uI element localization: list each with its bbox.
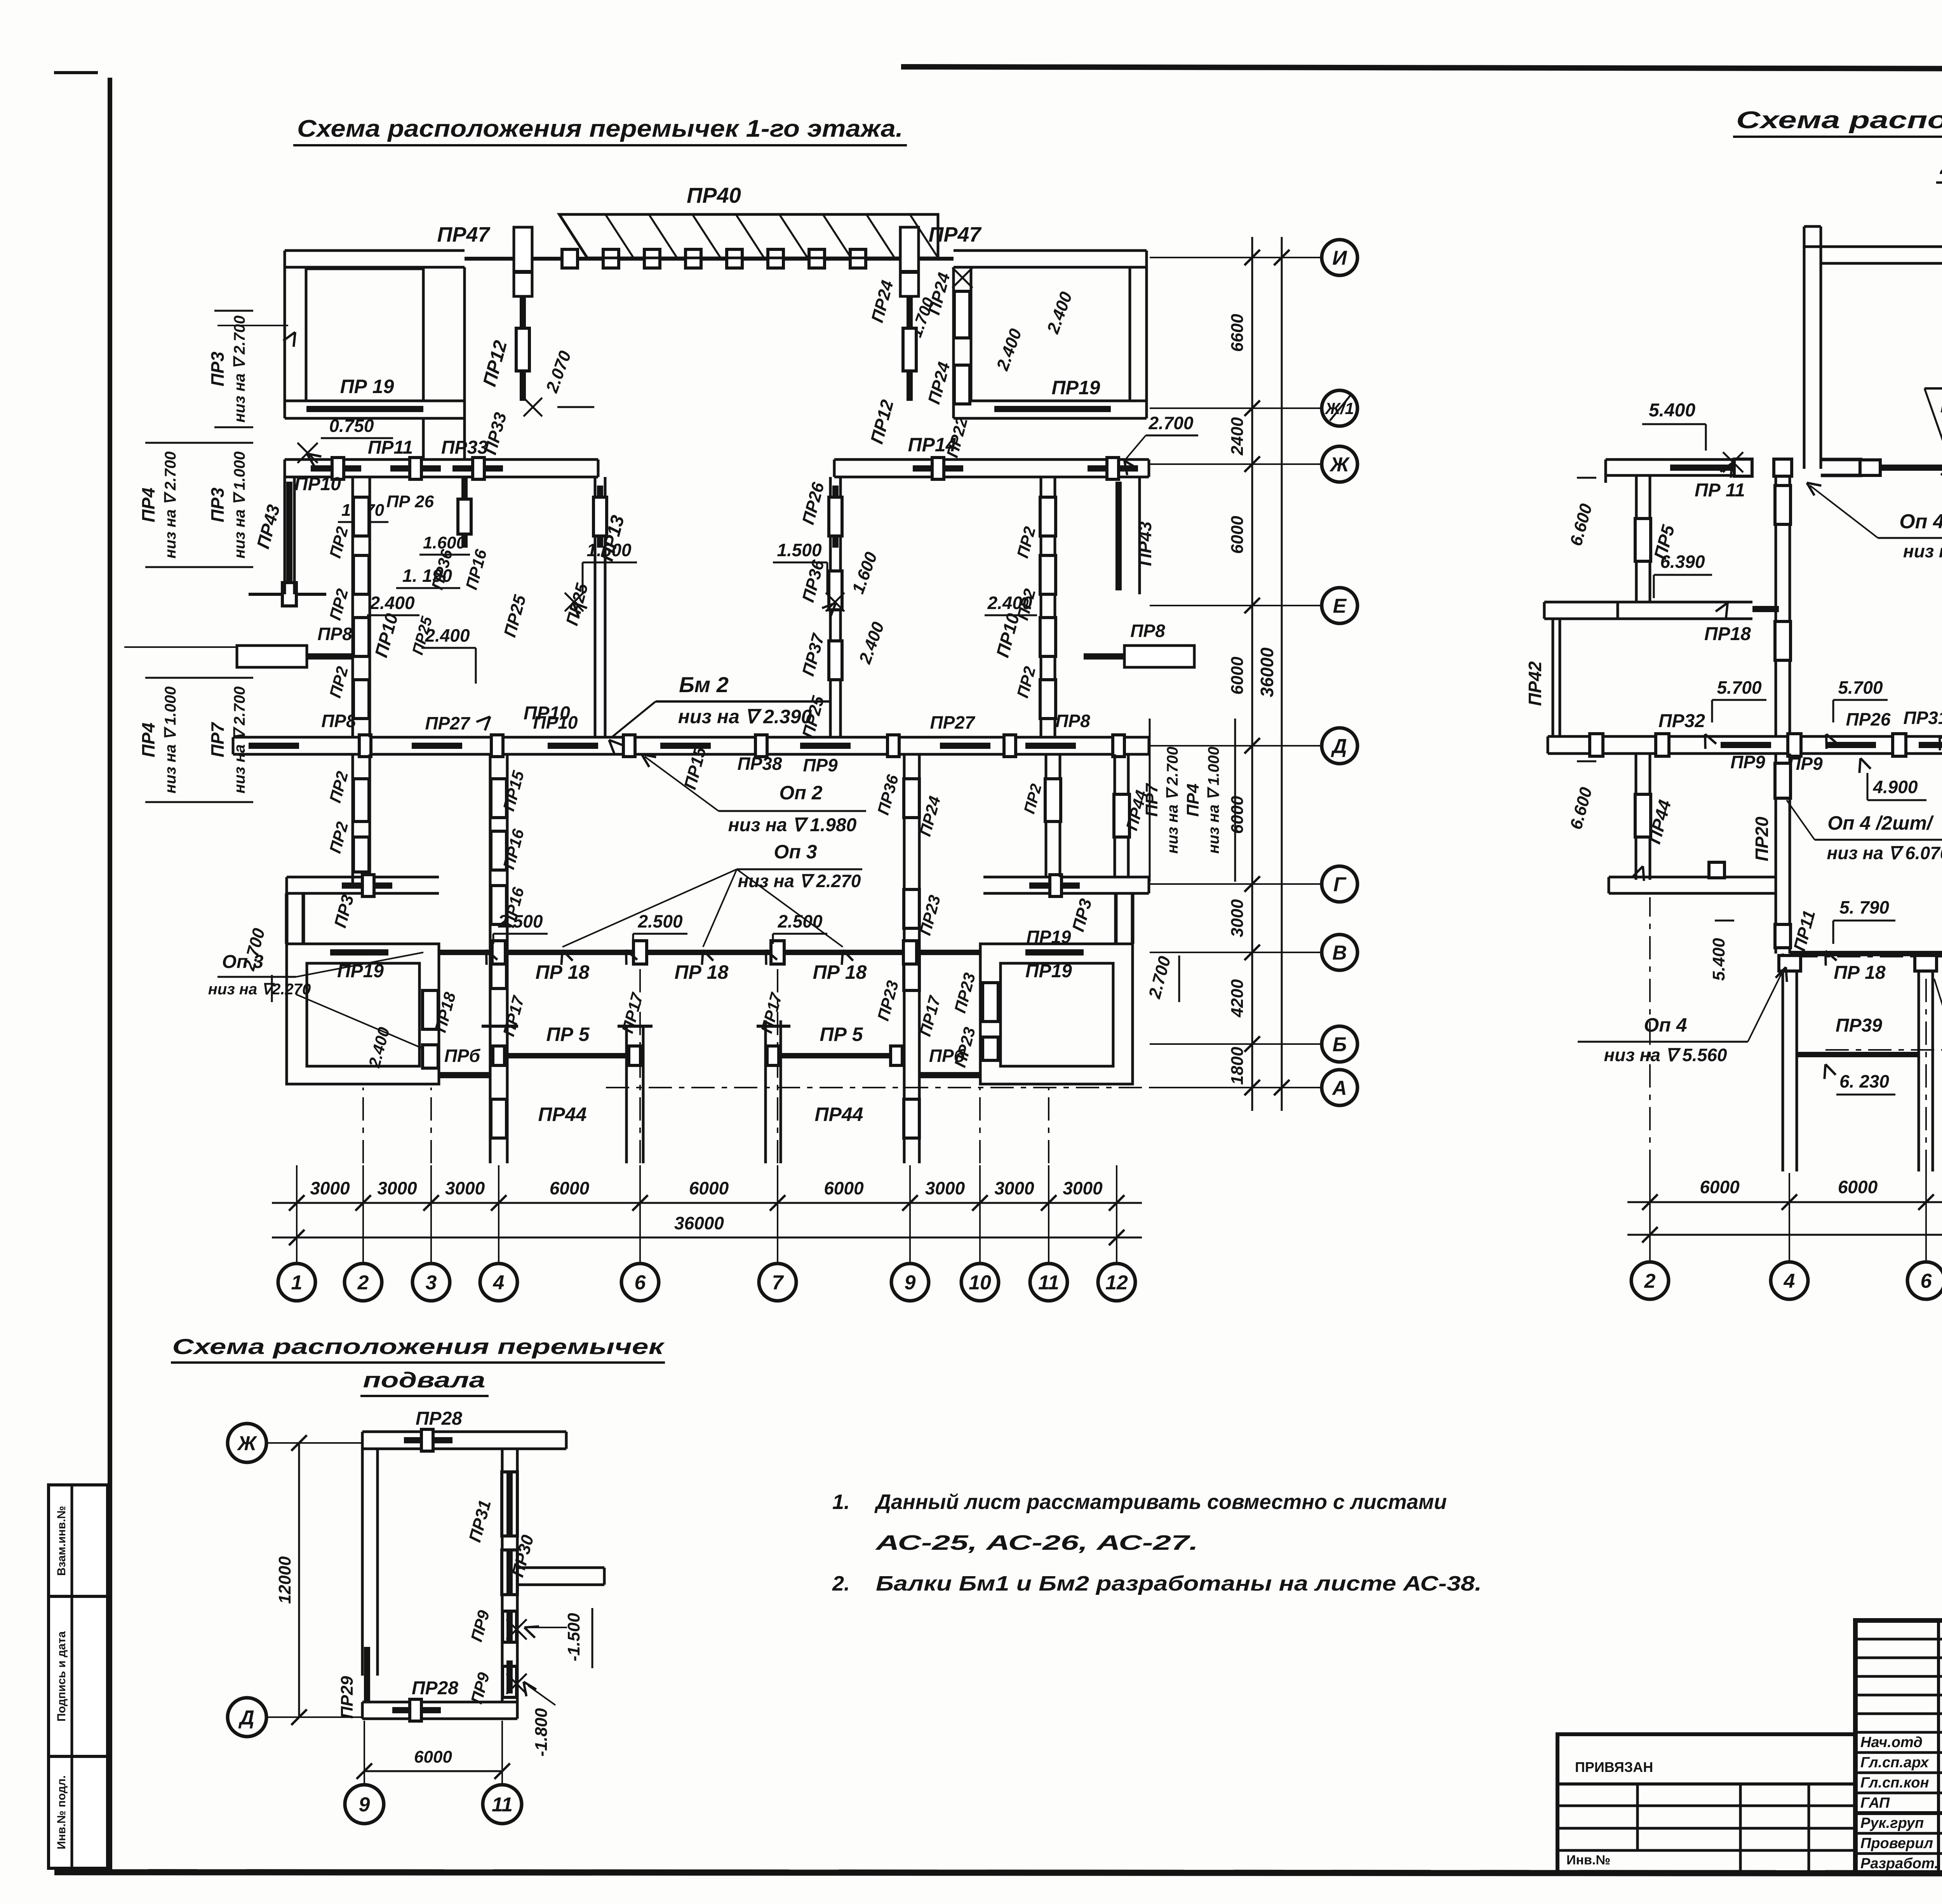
svg-text:Балки Бм1 и Бм2 разработан: Балки Бм1 и Бм2 разработаны на листе АС-… <box>876 1572 1482 1595</box>
stamp top narrow rows <box>1855 1638 1942 1641</box>
left plan: right dimension chain <box>1251 237 1253 1111</box>
svg-text:Схема расположения перемычек: Схема расположения перемычек <box>1736 107 1942 134</box>
svg-text:ПРб: ПРб <box>444 1046 481 1066</box>
left wall Ж-Е on axis1 <box>284 477 286 594</box>
wall connector left room to Г <box>285 893 289 944</box>
svg-text:3000: 3000 <box>445 1178 485 1198</box>
svg-text:5.700: 5.700 <box>1717 677 1762 698</box>
svg-text:ПР8: ПР8 <box>317 624 352 644</box>
svg-text:Д: Д <box>238 1707 254 1729</box>
lintel ПР6 bottom middle <box>919 1072 980 1078</box>
svg-text:ПР20: ПР20 <box>1752 816 1772 861</box>
svg-text:ПР 26: ПР 26 <box>386 492 434 511</box>
svg-text:2.700: 2.700 <box>1148 413 1194 433</box>
basement T-stub wall right <box>517 1566 604 1569</box>
svg-text:Оп 4 /2шт/: Оп 4 /2шт/ <box>1827 812 1934 834</box>
svg-text:Ж: Ж <box>237 1432 258 1455</box>
basement right wall with lintels <box>501 1449 504 1702</box>
slash in circle Ж/1 <box>1330 396 1350 421</box>
svg-text:5.700: 5.700 <box>1838 677 1883 698</box>
wall axis2 Ж-Д ПР2 stack <box>352 477 354 737</box>
svg-text:2.400: 2.400 <box>369 593 415 613</box>
svg-text:Нач.отд: Нач.отд <box>1860 1734 1923 1751</box>
left exterior wall Ж-Е 2nd floor <box>1635 475 1638 602</box>
wall connector right room to Г <box>1114 893 1118 944</box>
svg-text:ПР 19: ПР 19 <box>340 376 394 397</box>
right plan: bottom dimension chain <box>1627 1201 1942 1203</box>
svg-text:Г: Г <box>1333 874 1347 896</box>
svg-text:Д: Д <box>1331 735 1347 758</box>
svg-text:ПР28: ПР28 <box>416 1408 462 1429</box>
porch tower left (anta) <box>514 227 532 296</box>
svg-text:2.400: 2.400 <box>987 593 1032 613</box>
svg-text:ПР47: ПР47 <box>437 223 491 246</box>
svg-text:-1.500: -1.500 <box>564 1613 583 1661</box>
basement axis thin lines <box>267 1442 363 1444</box>
svg-text:2.: 2. <box>832 1572 850 1595</box>
svg-text:1.: 1. <box>832 1490 850 1514</box>
top-left room inner walls <box>306 269 423 401</box>
lintel slots ПР24 on top-right room left wall <box>954 291 970 338</box>
right side rooms between Д and Г (axis 10-12) <box>1045 754 1048 877</box>
svg-text:ПР29: ПР29 <box>338 1676 357 1719</box>
svg-text:Оп 4: Оп 4 <box>1644 1014 1687 1036</box>
svg-text:4: 4 <box>1784 1270 1795 1293</box>
svg-text:Взам.инв.№: Взам.инв.№ <box>55 1506 68 1576</box>
svg-text:ПР3: ПР3 <box>207 352 228 386</box>
svg-text:6.390: 6.390 <box>1660 552 1705 572</box>
svg-text:Оп 4: Оп 4 <box>1899 510 1942 533</box>
svg-text:Разработ.: Разработ. <box>1860 1855 1939 1872</box>
svg-text:Рук.груп: Рук.груп <box>1860 1815 1924 1831</box>
svg-text:И: И <box>1332 247 1347 270</box>
wall along axis И right section (double) <box>954 249 1147 252</box>
wall along axis И left section (double) <box>285 249 465 252</box>
long wall on axis Д <box>233 736 1149 739</box>
svg-text:6000: 6000 <box>1228 516 1247 554</box>
svg-text:ПР44: ПР44 <box>538 1103 587 1125</box>
left plan: right total dimension 36000 <box>1281 237 1283 1111</box>
svg-text:6000: 6000 <box>550 1178 590 1198</box>
svg-text:36000: 36000 <box>674 1213 724 1233</box>
svg-text:ПР8: ПР8 <box>1130 621 1165 641</box>
svg-text:6000: 6000 <box>1228 656 1247 694</box>
svg-text:ПР 18: ПР 18 <box>813 961 867 983</box>
svg-text:5.400: 5.400 <box>1709 938 1728 981</box>
svg-text:ПР33: ПР33 <box>441 437 488 458</box>
wall on axis Г left 2nd floor <box>1609 876 1775 879</box>
svg-text:ПР 5: ПР 5 <box>820 1023 863 1045</box>
svg-text:низ на ∇ 1.000: низ на ∇ 1.000 <box>1205 747 1222 854</box>
bottom-right room walls <box>980 944 1133 1084</box>
svg-text:А: А <box>1331 1077 1347 1100</box>
hall left wall 2nd floor <box>1775 475 1777 736</box>
svg-text:ПР7: ПР7 <box>207 722 228 757</box>
lintel ПР43 vertical left <box>286 482 292 590</box>
svg-text:-1.800: -1.800 <box>532 1708 551 1756</box>
svg-text:ПР42: ПР42 <box>1525 661 1545 706</box>
porch tower right (anta) <box>900 227 919 296</box>
left plan: bottom total dimension 36000 <box>272 1237 1142 1239</box>
lintel slots on bottom-left room right wall <box>423 990 438 1029</box>
stamp name rows <box>1855 1731 1942 1734</box>
wall on axis В center (lintel line with ПР18) <box>439 950 980 955</box>
svg-text:2: 2 <box>1644 1270 1656 1293</box>
svg-text:АС-25, АС-26, АС-27.: АС-25, АС-26, АС-27. <box>875 1531 1198 1554</box>
wall ПР20 vertical 2nd floor <box>1775 754 1777 954</box>
svg-text:ПР4: ПР4 <box>138 722 158 757</box>
svg-text:низ на ∇2.270: низ на ∇2.270 <box>208 981 311 998</box>
svg-text:12000: 12000 <box>275 1556 294 1604</box>
svg-text:7: 7 <box>772 1272 784 1294</box>
wall axis4 Д-porch with ПР15/16/17 lintels <box>489 754 492 1163</box>
svg-text:низ на ∇ 6.070: низ на ∇ 6.070 <box>1827 843 1942 863</box>
svg-text:6000: 6000 <box>414 1747 452 1767</box>
porch piers 2nd floor <box>1782 954 1784 1171</box>
wall axis9 Д-porch with lintels <box>903 754 906 1163</box>
stamp signature columns verticals <box>1937 1620 1940 1873</box>
svg-text:ПР43: ПР43 <box>1135 521 1155 566</box>
beam Бм1 line on axis Ж <box>1880 465 1942 471</box>
left plan: right axis circles И..А <box>1322 240 1357 275</box>
svg-text:2: 2 <box>357 1272 369 1294</box>
hall left wall (axis between 4 and 6) <box>594 477 597 737</box>
svg-text:6: 6 <box>635 1272 646 1294</box>
basement top wall with ПР28 <box>362 1431 566 1433</box>
svg-text:ПР28: ПР28 <box>412 1678 458 1699</box>
svg-text:Бм 2: Бм 2 <box>679 672 729 697</box>
svg-text:ПР44: ПР44 <box>815 1103 863 1125</box>
svg-text:ПР10: ПР10 <box>294 474 341 494</box>
left plan: axis grid thin lines bottom <box>296 1165 298 1264</box>
svg-text:Ж: Ж <box>1329 454 1350 476</box>
svg-text:2-го этажа: 2-го этажа <box>1940 153 1942 179</box>
svg-text:Схема расположения перемычек: Схема расположения перемычек 1-го этажа. <box>297 115 903 142</box>
wall axis2 Д-Г with ПР2 lintels <box>352 754 354 884</box>
svg-text:ПР26: ПР26 <box>1846 709 1891 729</box>
sheet frame left border <box>108 78 112 1872</box>
svg-text:ГАП: ГАП <box>1860 1795 1890 1811</box>
svg-text:11: 11 <box>492 1794 513 1816</box>
wall axis2 Д-Г 2nd floor ПР44 <box>1635 754 1637 880</box>
svg-text:6000: 6000 <box>689 1178 729 1198</box>
lintel dashes on Д wall <box>249 743 299 749</box>
svg-text:ПР4: ПР4 <box>1183 783 1202 816</box>
sheet frame bottom border <box>54 1872 1942 1874</box>
svg-text:ПР11: ПР11 <box>368 437 413 458</box>
wall on axis Ж left section <box>285 458 598 461</box>
lintel dashes in Ж wall openings <box>311 465 361 472</box>
svg-text:низ на ∇ 5.500: низ на ∇ 5.500 <box>1940 395 1942 417</box>
svg-text:Подпись и дата: Подпись и дата <box>55 1631 68 1721</box>
wall on axis Е left <box>1618 601 1752 604</box>
svg-text:6000: 6000 <box>1228 796 1247 834</box>
wall axis11 Ж-Д ПР2 stack right <box>1040 477 1042 737</box>
top-left room outer walls <box>284 267 286 418</box>
svg-text:2.500: 2.500 <box>637 911 683 931</box>
svg-text:5.400: 5.400 <box>1649 400 1695 421</box>
basement vertical dimension 12000 <box>298 1443 300 1717</box>
svg-text:ПР 18: ПР 18 <box>1834 962 1886 983</box>
vertical lintel ПР12 right tower <box>907 296 913 401</box>
svg-text:1: 1 <box>291 1272 303 1294</box>
basement left wall <box>361 1449 364 1676</box>
svg-text:6000: 6000 <box>1700 1177 1740 1197</box>
svg-text:6600: 6600 <box>1228 314 1247 352</box>
svg-text:ПР32: ПР32 <box>1658 711 1705 731</box>
svg-text:В: В <box>1332 942 1347 964</box>
svg-text:ПР38: ПР38 <box>738 754 782 774</box>
svg-text:10: 10 <box>969 1272 991 1294</box>
porch piers bottom middle (axis7-9) with ПР5 <box>764 1020 767 1163</box>
svg-text:ПР39: ПР39 <box>1836 1015 1882 1036</box>
svg-text:3000: 3000 <box>925 1178 965 1198</box>
svg-text:подвала: подвала <box>363 1368 486 1392</box>
right plan: bottom total 30000 <box>1627 1234 1942 1236</box>
basement bottom wall with ПР28 <box>362 1701 517 1704</box>
lintel ПР19 line top-right room <box>994 406 1111 412</box>
basement horizontal dimension 6000 <box>364 1770 502 1772</box>
svg-text:ПР8: ПР8 <box>321 711 356 731</box>
svg-text:низ на ∇ 2.270: низ на ∇ 2.270 <box>738 871 861 891</box>
svg-text:ПР27: ПР27 <box>425 713 471 733</box>
svg-text:3: 3 <box>426 1272 437 1294</box>
svg-text:4200: 4200 <box>1228 979 1247 1018</box>
left plan: axis grid thin lines right <box>1150 257 1321 258</box>
svg-text:ПР8: ПР8 <box>1055 711 1090 731</box>
hall right wall <box>829 477 832 737</box>
svg-text:2.500: 2.500 <box>498 911 543 931</box>
svg-text:низ на ∇ 5.560: низ на ∇ 5.560 <box>1604 1045 1727 1065</box>
svg-text:Инв.№: Инв.№ <box>1566 1853 1610 1867</box>
svg-text:Б: Б <box>1333 1034 1347 1056</box>
svg-text:ПР3: ПР3 <box>207 487 228 522</box>
svg-text:Оп 3: Оп 3 <box>774 841 817 863</box>
svg-text:низ на ∇ 2.700: низ на ∇ 2.700 <box>231 686 248 794</box>
svg-text:ПР31: ПР31 <box>1904 708 1942 728</box>
svg-text:Е: Е <box>1333 595 1347 618</box>
wall on axis Ж left section (2nd floor) <box>1606 458 1752 461</box>
wall axis3 Ж1 colonnade <box>422 418 425 459</box>
svg-text:низ на ∇ 1.000: низ на ∇ 1.000 <box>162 686 179 794</box>
right plan: bottom axis circles <box>1631 1262 1669 1299</box>
svg-text:3000: 3000 <box>1228 899 1247 937</box>
svg-text:6000: 6000 <box>824 1178 864 1198</box>
svg-text:9: 9 <box>359 1794 370 1816</box>
svg-text:низ на ∇6.160: низ на ∇6.160 <box>1903 541 1942 561</box>
svg-text:6000: 6000 <box>1838 1177 1878 1197</box>
svg-text:низ на ∇ 2.700: низ на ∇ 2.700 <box>1164 747 1181 854</box>
svg-text:4: 4 <box>493 1272 505 1294</box>
svg-text:низ на ∇ 2.700: низ на ∇ 2.700 <box>231 315 248 423</box>
left margin stamp boxes <box>49 1485 108 1868</box>
svg-text:Гл.сп.кон: Гл.сп.кон <box>1860 1775 1929 1791</box>
svg-text:1.500: 1.500 <box>586 540 632 560</box>
svg-text:9: 9 <box>905 1272 916 1294</box>
svg-text:ПР47: ПР47 <box>929 223 982 246</box>
privyazan table <box>1557 1734 1855 1873</box>
svg-text:ПР 5: ПР 5 <box>546 1023 590 1045</box>
left plan: bottom dimension chain segments <box>272 1202 1142 1204</box>
sheet frame top border <box>901 67 1942 70</box>
svg-text:ПР7: ПР7 <box>1142 783 1161 817</box>
wall piece axis Ж under stage left wall <box>1821 458 1862 461</box>
left step rooms Е-Д 2nd floor <box>1544 601 1618 604</box>
svg-text:ПР4: ПР4 <box>138 487 158 522</box>
stamp outer box <box>1855 1620 1942 1873</box>
svg-text:ПР 11: ПР 11 <box>1695 480 1745 501</box>
svg-text:ПР19: ПР19 <box>1025 961 1072 982</box>
bottom-left room walls <box>287 944 439 1084</box>
svg-text:низ на ∇ 2.390: низ на ∇ 2.390 <box>678 706 812 727</box>
svg-text:низ на ∇ 2.700: низ на ∇ 2.700 <box>162 451 179 559</box>
lintel strip ПР40 hatched <box>559 214 938 258</box>
svg-text:ПР9: ПР9 <box>803 755 838 775</box>
lintel ПР18 on Е <box>1752 606 1779 612</box>
svg-text:3000: 3000 <box>994 1178 1034 1198</box>
svg-text:2400: 2400 <box>1228 417 1247 456</box>
svg-text:12: 12 <box>1105 1272 1128 1294</box>
wall on axis Ж right section <box>834 458 1149 461</box>
svg-text:36000: 36000 <box>1257 647 1277 697</box>
svg-text:6. 230: 6. 230 <box>1839 1071 1889 1091</box>
svg-text:Оп 3: Оп 3 <box>222 952 264 972</box>
wall on axis В 2nd floor <box>1790 951 1942 956</box>
top-right room outer walls <box>952 267 955 418</box>
svg-text:ПР19: ПР19 <box>1027 927 1071 947</box>
wall right Ж-Е on axis12 <box>1138 477 1141 594</box>
svg-text:5. 790: 5. 790 <box>1839 897 1889 917</box>
lintels ПР39 <box>1797 1052 1919 1057</box>
label ПР24 top arrow <box>952 268 973 288</box>
left plan: bottom axis circles 1-12 <box>278 1264 315 1301</box>
basement axis circles <box>228 1424 266 1462</box>
svg-text:ПРИВЯЗАН: ПРИВЯЗАН <box>1575 1759 1653 1775</box>
svg-text:4.900: 4.900 <box>1872 777 1918 797</box>
svg-text:низ на ∇ 1.000: низ на ∇ 1.000 <box>231 451 248 559</box>
svg-text:3000: 3000 <box>1063 1178 1103 1198</box>
lintels ПР36/ПР35 axis3 <box>461 477 468 548</box>
right plan: bottom axis thin lines <box>1649 1173 1651 1262</box>
pier right at Е <box>1124 646 1194 667</box>
svg-text:низ на ∇ 1.980: низ на ∇ 1.980 <box>728 815 857 835</box>
svg-text:ПР9: ПР9 <box>1788 754 1823 774</box>
svg-text:ПР18: ПР18 <box>1704 624 1751 644</box>
svg-text:3000: 3000 <box>310 1178 350 1198</box>
svg-text:1.500: 1.500 <box>777 540 822 560</box>
svg-text:Оп 2: Оп 2 <box>779 782 822 804</box>
svg-text:Проверил: Проверил <box>1860 1835 1933 1852</box>
wall on axis Г right part <box>983 876 1149 879</box>
svg-text:Инв.№ подл.: Инв.№ подл. <box>55 1775 68 1850</box>
wall on axis Г left part <box>287 876 439 879</box>
svg-text:ПР19: ПР19 <box>1052 377 1100 399</box>
svg-text:Данный лист рассматривать с: Данный лист рассматривать совместно с ли… <box>874 1490 1447 1514</box>
stage box walls (2nd floor) <box>1803 226 1806 469</box>
lintel ПР19 over opening (top-left room bottom) <box>285 400 465 402</box>
svg-text:ПР10: ПР10 <box>533 712 578 733</box>
svg-text:0.750: 0.750 <box>329 416 374 436</box>
colonnade line on axis И with columns <box>465 257 954 261</box>
T slot at hall wall and Ж band junction <box>1774 459 1792 476</box>
svg-text:11: 11 <box>1038 1272 1059 1294</box>
vertical lintel ПР12 left (portico) <box>520 296 526 401</box>
lintel ПР6 bottom-left <box>439 1072 490 1078</box>
wall on axis Д 2nd floor <box>1548 735 1942 738</box>
svg-text:2.500: 2.500 <box>777 911 823 931</box>
pier left at Е <box>237 646 307 667</box>
svg-text:ПР27: ПР27 <box>930 712 976 733</box>
svg-text:1800: 1800 <box>1228 1047 1247 1085</box>
svg-text:Гл.сп.арх: Гл.сп.арх <box>1860 1754 1929 1771</box>
svg-text:3000: 3000 <box>377 1178 417 1198</box>
svg-text:Схема расположения перемычек: Схема расположения перемычек <box>172 1334 665 1359</box>
svg-text:6: 6 <box>1921 1270 1932 1293</box>
svg-text:ПР40: ПР40 <box>687 183 741 207</box>
svg-text:ПР9: ПР9 <box>1730 752 1765 772</box>
porch piers bottom left (axis4-6) with ПР5 <box>625 1025 628 1163</box>
left margin leader lines <box>218 325 288 326</box>
